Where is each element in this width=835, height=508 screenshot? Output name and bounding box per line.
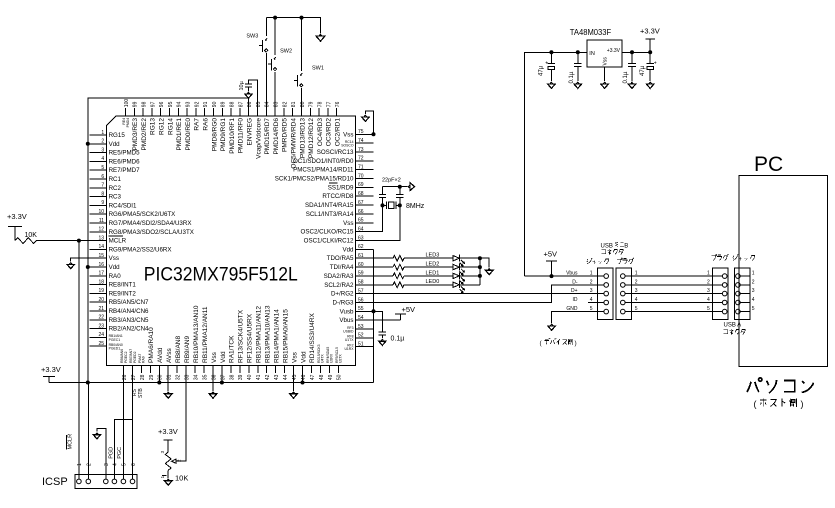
- ground (switch bus): [319, 34, 322, 36]
- svg-text:24: 24: [99, 332, 105, 338]
- svg-text:LED0: LED0: [426, 279, 440, 285]
- ground (regulator Vss): [604, 67, 606, 81]
- svg-text:95: 95: [168, 101, 174, 107]
- svg-text:PMA6/RA10: PMA6/RA10: [148, 327, 155, 363]
- svg-text:+3.3V: +3.3V: [640, 27, 660, 36]
- svg-text:4: 4: [590, 297, 593, 303]
- svg-text:SDA1/INT4/RA15: SDA1/INT4/RA15: [305, 202, 354, 209]
- svg-text:3: 3: [707, 288, 710, 294]
- svg-text:RB8/AN8: RB8/AN8: [175, 336, 182, 363]
- switch SW3: [265, 18, 267, 37]
- svg-text:4: 4: [752, 297, 755, 303]
- svg-text:RE8/INT1: RE8/INT1: [109, 282, 137, 289]
- svg-text:RB3/AN3/CN5: RB3/AN3/CN5: [109, 317, 149, 324]
- svg-text:SS1/RD9: SS1/RD9: [328, 184, 354, 191]
- svg-text:RE7/PMD7: RE7/PMD7: [109, 167, 141, 174]
- svg-text:8: 8: [101, 191, 104, 197]
- svg-text:U2TX: U2TX: [339, 354, 343, 363]
- svg-text:6: 6: [131, 463, 137, 466]
- svg-text:10µ: 10µ: [239, 80, 245, 90]
- svg-text:100: 100: [124, 99, 130, 108]
- svg-text:RB2/AN2/CN4: RB2/AN2/CN4: [109, 326, 149, 333]
- svg-text:4: 4: [113, 463, 119, 466]
- svg-text:PMCS1/PMA14/RD11: PMCS1/PMA14/RD11: [293, 167, 354, 174]
- svg-text:Vdd: Vdd: [109, 264, 121, 271]
- svg-text:Vbus: Vbus: [566, 271, 578, 277]
- svg-text:12: 12: [99, 227, 105, 233]
- svg-text:28: 28: [140, 374, 146, 380]
- capacitor 22pF (left): [382, 197, 384, 205]
- wire: LED cathode bus to ground: [479, 258, 481, 285]
- svg-text:52: 52: [358, 333, 364, 339]
- svg-text:RA1/TCK: RA1/TCK: [229, 335, 236, 363]
- svg-text:PMD15/RD7: PMD15/RD7: [264, 118, 271, 155]
- LED LED0: [404, 284, 453, 286]
- svg-text:2: 2: [752, 280, 755, 286]
- node junction dot Vusb pin55: [372, 309, 376, 313]
- svg-text:PGED2: PGED2: [133, 351, 137, 363]
- svg-text:85: 85: [256, 101, 262, 107]
- svg-text:7: 7: [101, 183, 104, 189]
- node crystal left junction: [381, 203, 385, 207]
- svg-text:PGC: PGC: [117, 447, 123, 459]
- svg-text:84: 84: [265, 101, 271, 107]
- svg-text:67: 67: [358, 200, 364, 206]
- svg-text:LED3: LED3: [426, 253, 440, 259]
- svg-text:ID: ID: [573, 297, 578, 303]
- svg-text:99: 99: [133, 101, 139, 107]
- LED LED1: [404, 275, 453, 277]
- svg-text:42: 42: [265, 374, 271, 380]
- svg-text:8MHz: 8MHz: [406, 203, 425, 210]
- svg-text:): ): [575, 340, 577, 347]
- svg-text:4: 4: [101, 156, 104, 162]
- svg-text:RC1: RC1: [109, 176, 122, 183]
- svg-text:80: 80: [300, 101, 306, 107]
- PC box (host computer): [739, 176, 828, 367]
- svg-text:0.1µ: 0.1µ: [569, 71, 575, 83]
- wire: ID stub: [588, 302, 598, 304]
- chip left pin bank: pins 1-25 with stubs, numbers and labels: [90, 130, 194, 351]
- ground (pin75 Vss): [365, 111, 373, 134]
- wire: +3.3V rail along chip bottom: [49, 382, 374, 384]
- svg-text:RB4/AN4/CN6: RB4/AN4/CN6: [109, 308, 149, 315]
- svg-text:RC2: RC2: [109, 185, 122, 192]
- svg-text:74: 74: [358, 138, 364, 144]
- wire: crystal caps common to ground arrow: [383, 186, 408, 188]
- svg-text:94: 94: [177, 101, 183, 107]
- svg-text:68: 68: [358, 191, 364, 197]
- svg-text:RA9: RA9: [142, 356, 146, 363]
- svg-text:78: 78: [318, 101, 324, 107]
- svg-text:54: 54: [358, 315, 364, 321]
- svg-text:2: 2: [87, 463, 93, 466]
- svg-text:4: 4: [707, 297, 710, 303]
- ground (USB GND row): [552, 312, 598, 323]
- wire: switch top bus to ground: [266, 18, 320, 33]
- svg-text:3: 3: [101, 147, 104, 153]
- svg-text:19: 19: [99, 288, 105, 294]
- svg-text:83: 83: [274, 101, 280, 107]
- switch SW1: [301, 18, 303, 72]
- svg-text:D-: D-: [572, 280, 578, 286]
- wire: D- pin56 jog up to USB jack row2: [374, 285, 598, 303]
- svg-text:1: 1: [707, 271, 710, 277]
- wire: ICSP pin2 +3.3V from rail: [87, 383, 89, 480]
- svg-text:91: 91: [203, 101, 209, 107]
- svg-text:PMD12/RD12: PMD12/RD12: [308, 118, 315, 158]
- svg-text:47µ: 47µ: [539, 65, 545, 76]
- svg-text:PMD1/RE1: PMD1/RE1: [176, 118, 183, 151]
- svg-text:35: 35: [203, 374, 209, 380]
- svg-text:77: 77: [326, 101, 332, 107]
- svg-text:72: 72: [358, 156, 364, 162]
- svg-text:20: 20: [99, 297, 105, 303]
- ground (LED bus): [488, 269, 491, 271]
- svg-text:57: 57: [358, 288, 364, 294]
- svg-text:29: 29: [149, 374, 155, 380]
- svg-text:2: 2: [101, 139, 104, 145]
- capacitor 0.1u (regulator output): [631, 52, 633, 63]
- svg-text:79: 79: [309, 101, 315, 107]
- svg-text:3: 3: [590, 288, 593, 294]
- svg-text:USBID: USBID: [343, 329, 354, 333]
- svg-text:17: 17: [99, 271, 105, 277]
- svg-text:SDA2/RA3: SDA2/RA3: [324, 273, 354, 280]
- svg-text:SW3: SW3: [246, 34, 258, 40]
- svg-text:2: 2: [707, 280, 710, 286]
- svg-text:IN: IN: [589, 51, 595, 57]
- node junction dot pin37: [220, 381, 224, 385]
- svg-text:RC4/SDI1: RC4/SDI1: [109, 202, 137, 209]
- svg-text:5: 5: [122, 463, 128, 466]
- svg-text:56: 56: [358, 297, 364, 303]
- svg-text:PGED1: PGED1: [109, 347, 121, 351]
- node junction dot rail tap: [86, 381, 90, 385]
- wire: regulator output to +3.3V: [622, 51, 650, 53]
- svg-text:RB13/PMA10/AN13: RB13/PMA10/AN13: [265, 305, 272, 363]
- svg-text:RE9/INT2: RE9/INT2: [109, 290, 137, 297]
- svg-text:98: 98: [142, 101, 148, 107]
- label pasokon (Japanese): [747, 378, 814, 393]
- svg-text:92: 92: [194, 101, 200, 107]
- svg-text:RG7/PMA4/SDI2/SDA4/U3RX: RG7/PMA4/SDI2/SDA4/U3RX: [109, 220, 192, 227]
- svg-text:5: 5: [707, 306, 710, 312]
- svg-text:PMD2/RE2: PMD2/RE2: [141, 118, 148, 151]
- svg-text:Vss: Vss: [343, 220, 353, 227]
- svg-text:PMD11/RF0: PMD11/RF0: [238, 118, 245, 154]
- connector J4 USB-A plug: [713, 268, 728, 320]
- svg-text:RG12: RG12: [159, 118, 166, 135]
- svg-text:38: 38: [229, 374, 235, 380]
- label plug (mini pair): [617, 258, 634, 264]
- svg-text:+5V: +5V: [402, 305, 416, 314]
- svg-text:10: 10: [99, 209, 105, 215]
- ground (pin36): [212, 373, 214, 391]
- svg-text:23: 23: [99, 323, 105, 329]
- svg-text:RB15/PMA0/AN15: RB15/PMA0/AN15: [282, 309, 289, 363]
- resistor (series LED0): [374, 284, 394, 286]
- svg-text:PMD14/RD6: PMD14/RD6: [273, 118, 280, 155]
- svg-text:LED1: LED1: [426, 270, 440, 276]
- svg-text:93: 93: [186, 101, 192, 107]
- svg-text:PMD9/RG1: PMD9/RG1: [220, 118, 227, 152]
- node junction dot SW1 bus: [300, 16, 304, 20]
- svg-text:MCLR: MCLR: [68, 434, 74, 450]
- svg-text:Vusb: Vusb: [340, 308, 354, 315]
- svg-text:PMD8/RG0: PMD8/RG0: [211, 118, 218, 152]
- svg-text:96: 96: [159, 101, 165, 107]
- svg-text:90: 90: [212, 101, 218, 107]
- svg-text:SCL1/INT3/RA14: SCL1/INT3/RA14: [306, 211, 354, 218]
- svg-text:RG13: RG13: [150, 118, 157, 135]
- capacitor 47u electrolytic (regulator input): [550, 52, 552, 63]
- svg-text:53: 53: [358, 324, 364, 330]
- svg-text:RG8/PMA3/SDO2/SCLA/U3TX: RG8/PMA3/SDO2/SCLA/U3TX: [109, 229, 194, 236]
- svg-text:Vss: Vss: [603, 57, 609, 66]
- svg-text:14: 14: [99, 244, 105, 250]
- svg-text:ENVREG: ENVREG: [247, 118, 254, 145]
- svg-text:1: 1: [590, 271, 593, 277]
- wire: pin2 Vdd / ENVREG / rail vertical at x=87.8: [88, 98, 249, 383]
- svg-text:45: 45: [292, 374, 298, 380]
- svg-text:70: 70: [358, 173, 364, 179]
- LED LED2: [404, 266, 453, 268]
- svg-text:TDI/RA4: TDI/RA4: [330, 264, 354, 271]
- svg-text:3: 3: [104, 463, 110, 466]
- svg-text:16: 16: [99, 262, 105, 268]
- svg-text:U2RX: U2RX: [330, 353, 334, 363]
- svg-text:PGD: PGD: [108, 447, 114, 459]
- power +5V (USB Vbus): [546, 261, 557, 276]
- svg-text:5: 5: [101, 165, 104, 171]
- svg-text:RTCC/RD8: RTCC/RD8: [322, 193, 354, 200]
- svg-text:+3.3V: +3.3V: [7, 212, 27, 221]
- svg-text:6: 6: [101, 174, 104, 180]
- svg-text:PMD10/RF1: PMD10/RF1: [229, 118, 236, 154]
- svg-text:Vss: Vss: [343, 131, 353, 138]
- svg-text:31: 31: [167, 374, 173, 380]
- wire: pin46 to rail: [302, 373, 304, 382]
- svg-text:RF12/SS4/U5RX: RF12/SS4/U5RX: [247, 313, 254, 363]
- svg-text:PC: PC: [754, 153, 783, 176]
- svg-text:+: +: [654, 61, 657, 67]
- node crystal right junction: [398, 203, 402, 207]
- connector J2 USB mini-B jack: [598, 268, 614, 320]
- svg-text:TDO/RA5: TDO/RA5: [327, 255, 354, 262]
- svg-text:PGEC1: PGEC1: [109, 338, 121, 342]
- svg-text:PMD0/RE0: PMD0/RE0: [185, 118, 192, 151]
- svg-text:B: B: [624, 244, 628, 250]
- LED LED3: [404, 257, 453, 259]
- svg-text:(: (: [754, 399, 757, 409]
- svg-text:OC3/RD2: OC3/RD2: [326, 118, 333, 147]
- svg-text:RB12/PMA11/AN12: RB12/PMA11/AN12: [256, 306, 263, 363]
- capacitor 10u (Vcap pin85): [249, 80, 258, 108]
- wire: pin62 Vdd down to +3.3V rail (x=373.3): [373, 249, 375, 382]
- svg-text:RB9/AN9: RB9/AN9: [184, 336, 191, 363]
- svg-text:AVdd: AVdd: [157, 347, 164, 363]
- svg-text:3: 3: [752, 288, 755, 294]
- wire: Vbus row from regulator corner to USB jack: [524, 275, 597, 277]
- svg-text:65: 65: [358, 218, 364, 224]
- chip right pin bank: pins 75-51 with stubs, numbers and labels: [275, 129, 374, 351]
- svg-text:STB: STB: [138, 388, 144, 398]
- svg-text:U1TX: U1TX: [345, 338, 354, 342]
- svg-text:48: 48: [319, 374, 325, 380]
- svg-text:30: 30: [158, 374, 164, 380]
- crystal X1 8MHz: [383, 204, 387, 206]
- svg-text:89: 89: [221, 101, 227, 107]
- svg-text:ICSP: ICSP: [42, 476, 68, 488]
- voltage regulator U2 TA48M033F: [587, 40, 622, 67]
- svg-text:Vss: Vss: [291, 351, 298, 363]
- svg-text:+3.3V: +3.3V: [158, 427, 178, 436]
- svg-text:1: 1: [77, 463, 83, 466]
- svg-text:OC4/RD3: OC4/RD3: [317, 118, 324, 147]
- label jack (mini pair): [587, 258, 609, 264]
- node junction dot SW2 bus: [273, 16, 277, 20]
- svg-text:+: +: [545, 61, 548, 67]
- svg-text:50: 50: [337, 374, 343, 380]
- connector J1 ICSP header: [75, 475, 137, 489]
- svg-text:RC3: RC3: [109, 194, 122, 201]
- connector J5 USB-A jack (on PC): [734, 268, 750, 320]
- svg-text:U4TX: U4TX: [321, 354, 325, 363]
- wire: pin30 to rail: [158, 373, 160, 382]
- svg-text:18: 18: [99, 279, 105, 285]
- node junction dot MCLR/ICSP: [77, 239, 81, 243]
- svg-text:Vdd: Vdd: [300, 351, 307, 363]
- svg-text:LED2: LED2: [426, 261, 440, 267]
- svg-text:69: 69: [358, 182, 364, 188]
- svg-text:Vss: Vss: [211, 351, 218, 363]
- svg-text:21: 21: [99, 306, 105, 312]
- svg-text:71: 71: [358, 165, 364, 171]
- svg-text:RB5/AN5/CN7: RB5/AN5/CN7: [109, 299, 149, 306]
- svg-text:RB11/PMA12/AN11: RB11/PMA12/AN11: [202, 306, 209, 363]
- capacitor 0.1u (regulator input): [577, 52, 579, 63]
- label plug (A pair): [712, 254, 729, 260]
- svg-text:AVss: AVss: [166, 348, 173, 363]
- svg-text:+5V: +5V: [544, 250, 558, 259]
- svg-text:Vbus: Vbus: [339, 317, 353, 324]
- svg-text:USB: USB: [601, 244, 613, 250]
- svg-text:D+/RG2: D+/RG2: [331, 291, 354, 298]
- wire: +5V feed from USB Vbus up to regulator input: [524, 52, 587, 276]
- ground (ICSP pin3): [97, 429, 106, 479]
- svg-text:PMD3/RE3: PMD3/RE3: [132, 118, 139, 151]
- svg-text:81: 81: [291, 101, 297, 107]
- svg-text:5: 5: [590, 306, 593, 312]
- svg-text:82: 82: [282, 101, 288, 107]
- svg-text:RE6/PMD6: RE6/PMD6: [109, 158, 141, 165]
- wire: resistor to pin13 MCLR: [36, 240, 89, 242]
- svg-text:RB10/PMA13/AN10: RB10/PMA13/AN10: [193, 305, 200, 363]
- svg-text:RG14: RG14: [167, 118, 174, 135]
- svg-text:Vss: Vss: [109, 255, 119, 262]
- wire: USB cable lines 1-5: [632, 275, 713, 277]
- svg-text:22: 22: [99, 315, 105, 321]
- svg-text:SCK1/PMCS2/PMA15/RD10: SCK1/PMCS2/PMA15/RD10: [275, 176, 354, 183]
- connector J3 USB mini-B plug: [616, 268, 632, 320]
- node junction dot pin30: [157, 381, 161, 385]
- wire: pin27 PGD to ICSP pin4 (with branch to pin6): [114, 373, 132, 479]
- svg-text:34: 34: [194, 374, 200, 380]
- svg-text:47µ: 47µ: [640, 65, 646, 76]
- svg-text:D-/RG3: D-/RG3: [333, 300, 355, 307]
- potentiometer VR1 10K: [165, 452, 171, 470]
- wire: OSC1 pin63 to crystal: [374, 205, 400, 240]
- svg-text:63: 63: [358, 235, 364, 241]
- svg-text:40: 40: [247, 374, 253, 380]
- node junction dot pin2 Vdd: [86, 142, 90, 146]
- svg-text:0.1µ: 0.1µ: [391, 336, 405, 343]
- ground (pin15 Vss): [71, 258, 90, 261]
- svg-text:10K: 10K: [25, 232, 38, 239]
- IC U1 PIC32MX795F512L microcontroller body: [107, 116, 356, 366]
- svg-text:RA0: RA0: [109, 273, 122, 280]
- capacitor 47u electrolytic (regulator output): [649, 52, 651, 63]
- svg-text:OC5/PMWR/RD4: OC5/PMWR/RD4: [291, 118, 298, 169]
- power +5V (Vbus pin54): [374, 319, 401, 321]
- svg-text:SOSCI/RC13: SOSCI/RC13: [317, 149, 354, 156]
- svg-text:RD14/SS3/U4RX: RD14/SS3/U4RX: [309, 312, 316, 363]
- svg-text:PMD4: PMD4: [126, 118, 130, 128]
- svg-text:10K: 10K: [175, 474, 188, 483]
- svg-text:OSC1/CLKI/RC12: OSC1/CLKI/RC12: [304, 238, 354, 245]
- svg-text:13: 13: [99, 235, 105, 241]
- svg-text:49: 49: [328, 374, 334, 380]
- svg-text:0.1µ: 0.1µ: [623, 71, 629, 83]
- svg-text:64: 64: [358, 227, 364, 233]
- svg-text:59: 59: [358, 271, 364, 277]
- svg-text:87: 87: [238, 101, 244, 107]
- svg-text:MCLR: MCLR: [109, 238, 127, 245]
- svg-text:RG6/PMA5/SCK2/U6TX: RG6/PMA5/SCK2/U6TX: [109, 211, 176, 218]
- svg-text:62: 62: [358, 244, 364, 250]
- svg-text:USB A: USB A: [724, 323, 742, 329]
- svg-text:SCL2/RA2: SCL2/RA2: [324, 282, 354, 289]
- svg-text:75: 75: [358, 129, 364, 135]
- svg-text:88: 88: [230, 101, 236, 107]
- svg-text:TA48M033F: TA48M033F: [570, 28, 611, 37]
- svg-text:97: 97: [150, 101, 156, 107]
- node junction dot pin46: [301, 381, 305, 385]
- svg-text:PGEC2: PGEC2: [124, 351, 128, 363]
- svg-text:SOSCO: SOSCO: [341, 144, 354, 148]
- svg-text:51: 51: [358, 342, 364, 348]
- svg-text:+3.3V: +3.3V: [607, 48, 621, 54]
- svg-text:66: 66: [358, 209, 364, 215]
- svg-text:58: 58: [358, 280, 364, 286]
- svg-text:33: 33: [185, 374, 191, 380]
- svg-text:39: 39: [238, 374, 244, 380]
- svg-text:55: 55: [358, 306, 364, 312]
- svg-text:27: 27: [131, 374, 137, 380]
- wire: pin26 PGC to ICSP pin5: [123, 373, 125, 479]
- wire: D+ pin57 to USB jack: [374, 293, 598, 295]
- svg-text:11: 11: [99, 218, 104, 224]
- wire: pin37 to rail: [221, 373, 223, 382]
- chip bottom pin bank: pins 26-50 with stubs, numbers and labels: [120, 305, 343, 380]
- svg-text:RG15: RG15: [109, 132, 126, 139]
- label jack (A pair): [733, 254, 755, 260]
- svg-text:46: 46: [301, 374, 307, 380]
- resistor (series LED2): [374, 266, 394, 268]
- resistor (series LED3): [374, 257, 394, 259]
- switch SW2: [274, 18, 276, 55]
